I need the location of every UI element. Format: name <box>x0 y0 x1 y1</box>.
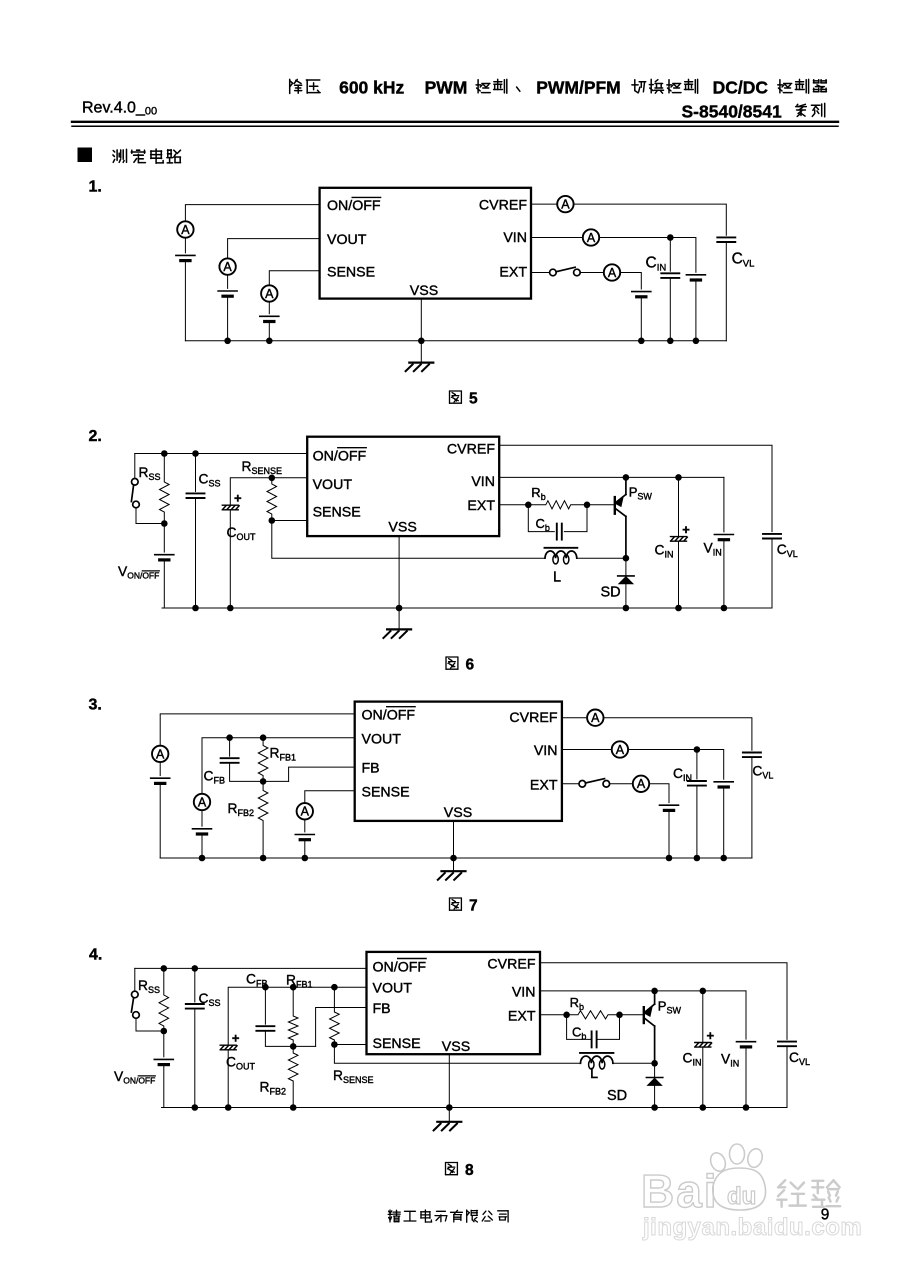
pin label ON/OFF circuit 3 <box>362 707 416 724</box>
pin label VOUT circuit 4 <box>373 981 413 997</box>
wire switch to ammeter, circuit 3 <box>609 783 633 785</box>
wire VOUT pin line, circuit 3 <box>202 738 355 794</box>
wire Cb to right node, circuit 4 <box>597 1015 620 1040</box>
svg-text:SD: SD <box>601 585 621 601</box>
wire CVREF to CVL, circuit 4 <box>540 963 787 1040</box>
label Rb circuit 2 <box>531 485 545 502</box>
junction VOUT branch rail, circuit 3 <box>199 855 206 862</box>
junction CIN on rail, circuit 1 <box>667 338 674 345</box>
circuit 4 index label <box>89 947 102 964</box>
junction COUT rail, circuit 4 <box>225 1104 232 1111</box>
label VON/OFF circuit 2 <box>118 564 159 581</box>
wire CSS branch, circuit 4 <box>194 968 196 1002</box>
wire CVL to rail, circuit 3 <box>751 757 753 858</box>
label CVL circuit 2 <box>777 542 798 559</box>
svg-text:PWM/PFM: PWM/PFM <box>536 78 621 98</box>
wire EXT battery to rail, circuit 3 <box>668 810 670 858</box>
svg-text:FB: FB <box>373 1001 391 1017</box>
svg-text:SENSE: SENSE <box>313 504 361 520</box>
svg-text:A: A <box>156 747 165 761</box>
wire EXT battery to rail, circuit 1 <box>640 297 642 341</box>
svg-text:VSS: VSS <box>442 1039 470 1055</box>
wire battery SENSE to rail, circuit 1 <box>268 322 270 341</box>
wire CVREF to CVL, circuit 2 <box>499 445 772 531</box>
junction RSENSE top, circuit 2 <box>269 475 276 482</box>
caption 图 5 <box>450 391 479 408</box>
svg-text:CVREF: CVREF <box>487 956 535 972</box>
label RFB1 circuit 4 <box>286 973 312 990</box>
wire ammeter to battery ON/OFF, circuit 3 <box>159 762 161 776</box>
capacitor CIN, circuit 1 <box>661 273 679 278</box>
svg-text:7: 7 <box>469 898 478 915</box>
caption 图 6 <box>446 657 475 674</box>
wire ammeter to battery VOUT, circuit 3 <box>201 810 203 826</box>
junction RFB1 top, circuit 3 <box>260 734 267 741</box>
svg-text:EXT: EXT <box>467 498 495 514</box>
resistor RFB1, circuit 3 <box>258 738 268 782</box>
junction COUT on rail, circuit 2 <box>227 605 234 612</box>
wire VIN battery to rail, circuit 2 <box>723 540 725 608</box>
pin label VIN circuit 4 <box>512 985 536 1001</box>
label Cb circuit 2 <box>536 516 550 533</box>
wire Cb branch, circuit 4 <box>567 1015 592 1040</box>
junction VSS rail, circuit 4 <box>446 1104 453 1111</box>
junction VSS on rail, circuit 2 <box>396 605 403 612</box>
resistor RSS, circuit 2 <box>160 454 170 524</box>
svg-text:Bai: Bai <box>641 1165 719 1217</box>
label RSENSE circuit 4 <box>333 1068 373 1085</box>
svg-text:ON/OFF: ON/OFF <box>373 959 427 975</box>
label CFB circuit 3 <box>204 769 225 786</box>
junction RSENSE bottom / SENSE, circuit 4 <box>331 1041 338 1048</box>
wire CSS to rail, circuit 4 <box>194 1009 196 1108</box>
pin label VSS circuit 2 <box>388 520 416 536</box>
wire CFB bottom, circuit 4 <box>265 1031 315 1047</box>
ammeter A on ON/OFF source, circuit 1 <box>177 221 193 237</box>
battery SENSE source, circuit 1 <box>260 316 279 321</box>
wire diode to rail, circuit 4 <box>654 1085 656 1107</box>
battery EXT source, circuit 3 <box>660 805 679 810</box>
wire CVL to rail, circuit 2 <box>771 539 773 609</box>
label CFB circuit 4 <box>246 972 267 989</box>
watermark Baidu logo text <box>641 1165 719 1217</box>
wire Cb branch, circuit 2 <box>528 505 554 532</box>
switch on EXT, circuit 3 <box>579 779 610 788</box>
junction RSS top, circuit 2 <box>161 450 168 457</box>
ground VSS, circuit 1 <box>406 363 434 372</box>
svg-text:VSS: VSS <box>388 520 416 536</box>
label RSENSE circuit 2 <box>242 459 282 476</box>
wire switch node to diode, circuit 2 <box>625 558 627 576</box>
ammeter A on CVREF, circuit 3 <box>587 710 603 726</box>
svg-text:DC/DC: DC/DC <box>713 78 769 98</box>
ammeter A on SENSE, circuit 3 <box>297 803 313 819</box>
header title line 2 S-8540/8541 series <box>682 102 825 122</box>
wire CSS branch, circuit 2 <box>195 454 197 492</box>
svg-text:du: du <box>727 1183 756 1210</box>
label CVL circuit 4 <box>789 1050 810 1067</box>
svg-text:SENSE: SENSE <box>373 1036 421 1052</box>
junction Rb/Cb right, circuit 4 <box>616 1012 623 1019</box>
wire EXT to Rb, circuit 4 <box>540 1014 567 1016</box>
capacitor CFB, circuit 3 <box>221 758 239 763</box>
ammeter A on EXT, circuit 3 <box>633 776 649 792</box>
pin label VOUT circuit 3 <box>362 731 402 747</box>
pin label EXT circuit 4 <box>508 1008 536 1024</box>
pin label ON/OFF circuit 2 <box>313 448 367 465</box>
label L circuit 4 <box>590 1066 598 1082</box>
ammeter A on EXT, circuit 1 <box>604 264 620 280</box>
wire base, circuit 4 <box>620 1014 644 1016</box>
wire CVL to rail, circuit 4 <box>786 1046 788 1107</box>
wire CIN to rail, circuit 1 <box>669 278 671 341</box>
junction RSENSE top, circuit 4 <box>331 984 338 991</box>
wire VIN to CIN node, circuit 3 <box>628 749 697 751</box>
junction VIN emitter, circuit 4 <box>651 988 658 995</box>
ground VSS, circuit 2 <box>383 629 411 638</box>
svg-text:6: 6 <box>466 657 475 674</box>
wire VSS to rail, circuit 3 <box>453 821 455 858</box>
junction VOUT branch on rail, circuit 1 <box>224 338 231 345</box>
wire CVL to rail, circuit 1 <box>725 242 727 341</box>
pin label FB circuit 3 <box>362 761 380 777</box>
svg-text:S-8540/8541: S-8540/8541 <box>682 102 782 122</box>
svg-text:VOUT: VOUT <box>362 731 402 747</box>
svg-text:VIN: VIN <box>503 230 527 246</box>
wire VIN line, circuit 2 <box>499 476 724 478</box>
pin label CVREF circuit 3 <box>509 710 557 726</box>
wire VIN battery to rail, circuit 1 <box>695 280 697 341</box>
svg-text:A: A <box>591 711 600 725</box>
section heading 测定电路 <box>113 149 181 163</box>
svg-text:ON/OFF: ON/OFF <box>362 708 416 724</box>
resistor RFB2, circuit 3 <box>258 781 268 858</box>
circuit 3 index label <box>89 697 102 714</box>
label CVL circuit 1 <box>732 251 755 270</box>
svg-text:SENSE: SENSE <box>362 784 410 800</box>
wire battery to bottom rail, circuit 2 <box>163 560 165 608</box>
pin label SENSE circuit 3 <box>362 784 410 800</box>
wire ammeter to battery SENSE, circuit 1 <box>268 302 270 314</box>
wire Cb to right node, circuit 2 <box>564 505 587 532</box>
pin label VSS circuit 3 <box>444 805 472 821</box>
wire VSS to ground, circuit 1 <box>420 341 422 363</box>
capacitor CVL, circuit 3 <box>743 753 761 758</box>
pin label ON/OFF circuit 1 <box>327 197 381 214</box>
capacitor CVL, circuit 1 <box>717 237 735 242</box>
pin label SENSE circuit 1 <box>327 264 375 280</box>
wire VIN to battery, circuit 2 <box>723 477 725 532</box>
ammeter A on CVREF, circuit 1 <box>557 196 573 212</box>
wire ammeter to battery, circuit 1 <box>184 238 186 253</box>
ammeter A on VOUT source, circuit 1 <box>219 258 235 274</box>
label COUT circuit 2 <box>227 525 256 542</box>
junction CSS top, circuit 2 <box>192 450 199 457</box>
junction RFB2 rail, circuit 3 <box>260 855 267 862</box>
svg-text:VOUT: VOUT <box>373 981 413 997</box>
junction RFB1 bottom / FB node, circuit 3 <box>260 778 267 785</box>
battery ON/OFF source, circuit 1 <box>176 255 195 260</box>
svg-text:A: A <box>301 805 310 819</box>
wire ON/OFF to left rail, circuit 3 <box>160 714 355 746</box>
bottom rail circuit 3 <box>160 857 752 859</box>
pin label SENSE circuit 4 <box>373 1036 421 1052</box>
wire battery SENSE to rail, circuit 3 <box>304 840 306 858</box>
junction switch node, circuit 4 <box>651 1060 658 1067</box>
section heading square bullet <box>78 148 92 162</box>
pin label FB circuit 4 <box>373 1001 391 1017</box>
inductor L, circuit 4 <box>580 1053 613 1069</box>
wire rail to switch, circuit 4 <box>134 968 136 991</box>
wire battery to rail, circuit 3 <box>159 783 161 858</box>
svg-text:VIN: VIN <box>512 985 536 1001</box>
pin label VOUT circuit 2 <box>313 477 353 493</box>
ammeter A on VIN, circuit 3 <box>612 741 628 757</box>
wire CIN branch, circuit 1 <box>669 238 671 272</box>
junction RSS top, circuit 4 <box>161 965 168 972</box>
junction VIN battery rail, circuit 2 <box>721 605 728 612</box>
junction VIN emitter, circuit 2 <box>623 474 630 481</box>
label Cb circuit 4 <box>572 1025 586 1042</box>
wire CVREF to ammeter, circuit 3 <box>562 717 587 719</box>
junction switch node, circuit 2 <box>623 555 630 562</box>
top rail ON/OFF circuit 2 <box>135 453 307 455</box>
label VIN circuit 4 <box>721 1052 739 1069</box>
wire switch to ammeter EXT, circuit 1 <box>580 272 604 274</box>
svg-text:VOUT: VOUT <box>313 477 353 493</box>
pin label VIN circuit 2 <box>471 474 495 490</box>
wire RSS bottom to battery, circuit 2 <box>163 524 165 553</box>
capacitor Cb, circuit 2 <box>557 524 562 540</box>
junction VIN battery rail, circuit 4 <box>743 1104 750 1111</box>
diode SD (Schottky), circuit 4 <box>646 1078 662 1086</box>
wire VSS pin to rail, circuit 2 <box>398 536 400 608</box>
wire SENSE branch, circuit 3 <box>305 791 355 803</box>
battery SENSE source, circuit 3 <box>295 835 314 840</box>
op IC U1 circuit 3 <box>355 702 562 821</box>
label RSS circuit 4 <box>138 978 160 995</box>
svg-text:2.: 2. <box>89 428 102 445</box>
capacitor CIN (electrolytic), circuit 2 <box>671 522 691 541</box>
junction CSS on rail, circuit 2 <box>192 605 199 612</box>
svg-text:CVREF: CVREF <box>447 441 495 457</box>
wire VIN line, circuit 4 <box>540 990 746 992</box>
junction CSS rail, circuit 4 <box>192 1104 199 1111</box>
pin label SENSE circuit 2 <box>313 504 361 520</box>
wire ON/OFF pin to left rail, circuit 1 <box>185 205 319 222</box>
wire SENSE pin, circuit 4 <box>334 1044 366 1046</box>
label Rb circuit 4 <box>570 995 584 1012</box>
junction EXT branch on rail, circuit 1 <box>638 338 645 345</box>
battery VON/OFF, circuit 4 <box>154 1059 173 1064</box>
svg-text:FB: FB <box>362 761 380 777</box>
junction VIN CIN, circuit 3 <box>694 746 701 753</box>
wire VSS to rail, circuit 4 <box>448 1054 450 1107</box>
svg-text:CVREF: CVREF <box>479 198 527 214</box>
svg-text:5: 5 <box>469 391 478 408</box>
junction CFB top, circuit 3 <box>226 734 233 741</box>
resistor RFB1, circuit 4 <box>288 987 298 1046</box>
label SD circuit 4 <box>607 1088 627 1104</box>
wire rail to switch top, circuit 2 <box>134 454 136 479</box>
wire CFB branch top, circuit 3 <box>229 738 231 757</box>
wire CIN to rail, circuit 2 <box>678 541 680 608</box>
svg-text:A: A <box>608 266 617 280</box>
label CIN circuit 3 <box>673 766 692 783</box>
pin label VSS circuit 1 <box>410 283 438 299</box>
wire EXT pin to switch, circuit 1 <box>531 272 550 274</box>
wire output node to inductor, circuit 2 <box>272 521 545 559</box>
header double rule <box>72 122 838 127</box>
svg-text:SD: SD <box>607 1088 627 1104</box>
capacitor CFB, circuit 4 <box>256 1026 274 1031</box>
wire battery VOUT to rail, circuit 3 <box>201 834 203 858</box>
junction VIN / CIN, circuit 1 <box>667 234 674 241</box>
svg-text:ON/OFF: ON/OFF <box>313 449 367 465</box>
junction Rb/Cb right, circuit 2 <box>584 502 591 509</box>
svg-text:PWM: PWM <box>425 78 468 98</box>
bottom rail circuit 2 <box>162 607 772 609</box>
wire CSS to rail, circuit 2 <box>195 498 197 608</box>
wire CIN to rail, circuit 3 <box>696 786 698 858</box>
svg-text:+: + <box>682 522 690 537</box>
wire base, circuit 2 <box>587 504 615 506</box>
svg-text:A: A <box>587 231 596 245</box>
battery ON/OFF source, circuit 3 <box>151 778 170 783</box>
wire EXT to switch, circuit 3 <box>562 783 579 785</box>
label CIN circuit 2 <box>655 543 674 560</box>
wire CIN branch, circuit 4 <box>702 991 704 1043</box>
pin label EXT circuit 1 <box>499 264 527 280</box>
pin label CVREF circuit 2 <box>447 441 495 457</box>
wire VIN battery to rail, circuit 3 <box>723 787 725 858</box>
transistor Q PSW, circuit 2 <box>615 477 626 558</box>
svg-text:A: A <box>181 223 190 237</box>
circuit 2 index label <box>89 428 102 445</box>
switch RSS, circuit 4 <box>131 991 139 1018</box>
wire ammeter to battery SENSE, circuit 3 <box>304 820 306 832</box>
header title line 1 <box>290 78 827 98</box>
wire CIN branch, circuit 2 <box>678 477 680 536</box>
transistor label 4 <box>658 999 682 1016</box>
junction CIN rail, circuit 2 <box>675 605 682 612</box>
wire VOUT pin line, circuit 4 <box>228 987 366 1045</box>
pin label ON/OFF circuit 4 <box>373 959 427 976</box>
capacitor COUT (electrolytic), circuit 2 <box>222 491 242 510</box>
wire inductor to switch node, circuit 2 <box>577 557 626 559</box>
junction CSS top, circuit 4 <box>192 965 199 972</box>
switch RSS, circuit 2 <box>131 479 139 508</box>
label RSS circuit 2 <box>139 465 161 482</box>
label VIN circuit 2 <box>704 541 722 558</box>
pin label CVREF circuit 4 <box>487 956 535 972</box>
svg-text:VSS: VSS <box>444 805 472 821</box>
label RFB2 circuit 4 <box>260 1080 286 1097</box>
watermark url jingyan.baidu.com <box>642 1214 862 1241</box>
wire VIN to battery, circuit 3 <box>697 750 724 780</box>
transistor label 2 <box>629 485 653 502</box>
junction RFB1 top, circuit 4 <box>290 984 297 991</box>
wire CVREF pin to ammeter, circuit 1 <box>531 203 557 205</box>
capacitor CVL, circuit 2 <box>763 534 781 539</box>
wire VIN to battery, circuit 4 <box>745 991 747 1039</box>
pin label EXT circuit 3 <box>530 777 558 793</box>
svg-text:L: L <box>553 570 561 586</box>
bottom rail circuit 4 <box>162 1107 788 1109</box>
svg-text:L: L <box>590 1066 598 1082</box>
junction diode rail, circuit 4 <box>651 1104 658 1111</box>
resistor RSENSE, circuit 2 <box>267 478 277 521</box>
svg-text:EXT: EXT <box>499 264 527 280</box>
wire FB pin jog, circuit 4 <box>316 1008 367 1047</box>
capacitor CIN, circuit 3 <box>688 781 706 786</box>
wire FB pin jog, circuit 3 <box>289 767 355 781</box>
capacitor COUT (electrolytic), circuit 4 <box>220 1031 240 1050</box>
junction VIN CIN, circuit 4 <box>700 988 707 995</box>
resistor RFB2, circuit 4 <box>288 1046 298 1107</box>
battery EXT source, circuit 1 <box>632 292 651 297</box>
wire switch bottom to RSS bottom, circuit 4 <box>136 1018 164 1031</box>
svg-text:A: A <box>198 795 207 809</box>
wire switch node to diode, circuit 4 <box>654 1063 656 1077</box>
junction RSS bottom, circuit 4 <box>161 1028 168 1035</box>
wire VOUT pin branch, circuit 1 <box>228 239 320 259</box>
ammeter A on ON/OFF, circuit 3 <box>152 746 168 762</box>
ammeter A on VIN, circuit 1 <box>583 229 599 245</box>
junction SENSE branch on rail, circuit 1 <box>266 338 273 345</box>
junction Rb/Cb left, circuit 2 <box>525 502 532 509</box>
inductor L, circuit 2 <box>545 548 578 564</box>
wire EXT to battery, circuit 1 <box>620 273 641 290</box>
switch on EXT, circuit 1 <box>550 267 581 276</box>
footer page number 9 <box>821 1207 830 1224</box>
wire VIN battery to rail, circuit 4 <box>745 1047 747 1108</box>
svg-text:4.: 4. <box>89 947 102 964</box>
label CVL circuit 3 <box>752 764 773 781</box>
wire CVREF to CVL, circuit 1 <box>574 204 727 235</box>
label CSS circuit 4 <box>199 991 221 1008</box>
header Rev.4.0_00 <box>82 100 157 118</box>
wire VSS to ground, circuit 4 <box>448 1108 450 1122</box>
capacitor Cb, circuit 4 <box>592 1031 597 1047</box>
bottom rail circuit 1 <box>185 340 726 342</box>
wire COUT to rail, circuit 2 <box>229 510 231 608</box>
svg-text:VSS: VSS <box>410 283 438 299</box>
label VON/OFF circuit 4 <box>114 1069 155 1086</box>
svg-text:A: A <box>616 743 625 757</box>
junction RSS bottom, circuit 2 <box>161 520 168 527</box>
svg-text:jingyan.baidu.com: jingyan.baidu.com <box>642 1214 862 1241</box>
wire battery VOUT to rail, circuit 1 <box>227 296 229 341</box>
wire CIN branch, circuit 3 <box>696 750 698 779</box>
wire output node to inductor, circuit 4 <box>334 1045 580 1064</box>
junction VIN CIN, circuit 2 <box>675 474 682 481</box>
battery VIN source, circuit 1 <box>686 275 705 280</box>
ammeter A on VOUT, circuit 3 <box>194 794 210 810</box>
ground VSS, circuit 4 <box>434 1122 462 1131</box>
wire EXT ammeter to battery, circuit 3 <box>649 784 669 803</box>
svg-text:3.: 3. <box>89 697 102 714</box>
wire diode to rail, circuit 2 <box>625 584 627 608</box>
label RFB2 circuit 3 <box>228 801 254 818</box>
wire VOUT pin line, circuit 2 <box>230 478 307 505</box>
pin label VIN circuit 3 <box>534 743 558 759</box>
capacitor CSS, circuit 4 <box>186 1004 204 1009</box>
capacitor CIN (electrolytic), circuit 4 <box>695 1028 715 1047</box>
pin label VOUT circuit 1 <box>327 232 367 248</box>
battery VIN, circuit 4 <box>737 1042 756 1047</box>
wire VIN pin to ammeter, circuit 1 <box>531 237 583 239</box>
